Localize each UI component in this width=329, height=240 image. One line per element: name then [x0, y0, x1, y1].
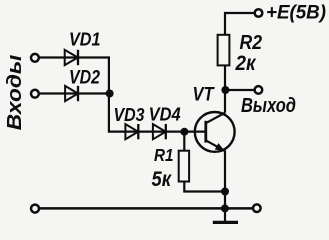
svg-text:R1: R1 — [154, 145, 174, 165]
svg-text:2к: 2к — [235, 52, 257, 75]
svg-text:+Е(5В): +Е(5В) — [266, 2, 326, 23]
svg-text:VD1: VD1 — [69, 29, 101, 49]
svg-text:VT: VT — [193, 84, 215, 105]
svg-text:VD3: VD3 — [114, 104, 146, 125]
svg-text:VD2: VD2 — [69, 68, 100, 89]
svg-text:R2: R2 — [240, 32, 263, 54]
svg-text:VD4: VD4 — [149, 103, 181, 124]
svg-text:Входы: Входы — [4, 55, 26, 131]
svg-text:Выход: Выход — [241, 95, 296, 117]
svg-text:5к: 5к — [152, 168, 173, 191]
